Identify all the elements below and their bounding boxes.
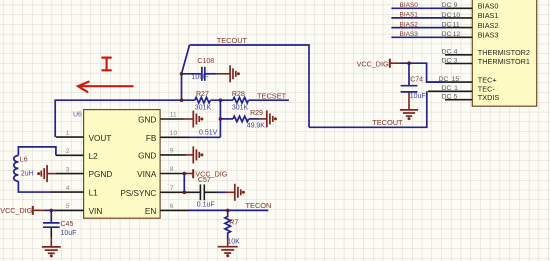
svg-text:BIAS0: BIAS0 xyxy=(478,2,499,11)
svg-text:TEC+: TEC+ xyxy=(478,75,497,84)
svg-text:THERMISTOR2: THERMISTOR2 xyxy=(478,48,530,57)
wire FB vertical xyxy=(219,100,221,137)
wire pin8 to pin7 xyxy=(183,174,185,193)
wire C57 lead xyxy=(204,191,217,193)
wire BIAS0 xyxy=(391,7,446,9)
wire BIAS1 xyxy=(391,17,446,19)
wire FB row xyxy=(189,136,221,138)
svg-text:BIAS2: BIAS2 xyxy=(478,21,499,30)
wire TECSET xyxy=(249,99,289,101)
svg-text:TECOUT: TECOUT xyxy=(217,36,248,45)
svg-text:10UF: 10UF xyxy=(192,74,209,81)
pin DC 11 xyxy=(445,27,472,29)
svg-text:2uH: 2uH xyxy=(21,171,34,178)
svg-text:8: 8 xyxy=(170,166,174,173)
svg-text:EN: EN xyxy=(145,207,156,216)
svg-text:C57: C57 xyxy=(198,177,211,184)
svg-text:5: 5 xyxy=(454,94,458,101)
power port VCC_DIG (VINA pin 8) xyxy=(184,173,193,175)
junction FB tap xyxy=(219,98,223,102)
ground right of C108 xyxy=(215,73,230,75)
svg-text:2: 2 xyxy=(66,148,70,155)
svg-text:1: 1 xyxy=(66,130,70,137)
U6 pin 3 xyxy=(56,173,84,175)
svg-text:VIN: VIN xyxy=(89,207,103,216)
svg-text:BIAS1: BIAS1 xyxy=(478,11,499,20)
svg-text:PS/SYNC: PS/SYNC xyxy=(120,189,156,198)
wire VIN xyxy=(45,209,57,211)
pin DC 1 xyxy=(428,90,472,92)
svg-text:6: 6 xyxy=(170,203,174,210)
svg-text:10uF: 10uF xyxy=(410,93,426,100)
U6 pin 5 xyxy=(54,209,84,211)
svg-text:301K: 301K xyxy=(195,104,212,111)
svg-text:R29: R29 xyxy=(250,110,263,117)
resistor R27 xyxy=(195,97,211,103)
ground at pin 11 xyxy=(184,118,193,120)
pin DC 9 xyxy=(445,7,472,9)
ground below R7 xyxy=(227,239,229,247)
junction R29 branch xyxy=(219,117,223,121)
svg-text:1: 1 xyxy=(454,85,458,92)
svg-text:C45: C45 xyxy=(61,221,74,228)
svg-text:L1: L1 xyxy=(89,189,99,198)
current direction marker I xyxy=(102,58,111,71)
svg-text:0.1uF: 0.1uF xyxy=(197,202,215,209)
svg-text:C108: C108 xyxy=(197,58,214,65)
svg-text:4: 4 xyxy=(454,49,458,56)
svg-text:C74: C74 xyxy=(410,77,423,84)
U6 pin 11 xyxy=(160,118,184,120)
ground below C45 xyxy=(50,228,52,238)
svg-text:DC: DC xyxy=(442,57,452,64)
svg-text:DC: DC xyxy=(442,85,452,92)
pin DC 10 xyxy=(445,17,472,19)
resistor R7 xyxy=(225,210,231,239)
junction R7 xyxy=(226,209,230,213)
svg-text:VOUT: VOUT xyxy=(89,134,112,143)
U6 pin 2 xyxy=(56,154,84,156)
U6 pin 10 xyxy=(160,136,189,138)
wire TECOUT top run xyxy=(190,45,310,127)
U6 pin 7 xyxy=(160,191,200,193)
svg-text:9: 9 xyxy=(454,2,458,9)
pin DC 5 xyxy=(445,99,472,101)
svg-text:BIAS3: BIAS3 xyxy=(478,31,499,40)
capacitor C108 xyxy=(201,67,203,81)
wire R29 to ground xyxy=(249,118,259,120)
wire TECOUT to TEC- xyxy=(309,91,427,127)
svg-text:GND: GND xyxy=(138,152,156,161)
svg-text:10: 10 xyxy=(453,12,461,19)
svg-text:5: 5 xyxy=(66,203,70,210)
wire C108 left lead xyxy=(182,73,202,75)
wire VOUT rail xyxy=(55,100,195,137)
capacitor C57 xyxy=(199,184,201,200)
svg-text:15: 15 xyxy=(452,76,460,83)
wire BIAS3 xyxy=(391,36,446,38)
wire to R29 xyxy=(220,118,233,120)
pin DC 3 xyxy=(445,63,472,65)
U6 pin 6 xyxy=(160,209,189,211)
junction at C74 tap xyxy=(407,61,411,65)
svg-text:VINA: VINA xyxy=(137,170,157,179)
U6 pin 9 xyxy=(160,154,186,156)
svg-text:THERMISTOR1: THERMISTOR1 xyxy=(478,57,530,66)
ground below C74 xyxy=(408,93,410,110)
svg-text:3: 3 xyxy=(454,57,458,64)
inductor L6 xyxy=(18,147,56,156)
wire C108 right lead xyxy=(205,73,216,75)
wire BIAS2 xyxy=(391,27,446,29)
connector DC body xyxy=(472,0,536,106)
wire R27-R28 xyxy=(211,99,233,101)
svg-text:3: 3 xyxy=(66,166,70,173)
svg-text:R27: R27 xyxy=(196,91,209,98)
svg-text:R28: R28 xyxy=(232,91,245,98)
pin DC 4 xyxy=(445,54,472,56)
svg-text:9: 9 xyxy=(170,148,174,155)
capacitor C74 xyxy=(401,85,418,87)
svg-text:GND: GND xyxy=(138,116,156,125)
wire TECON xyxy=(189,209,269,211)
svg-text:11: 11 xyxy=(170,112,177,119)
svg-text:10uF: 10uF xyxy=(61,230,77,237)
svg-text:TECOUT: TECOUT xyxy=(372,118,403,127)
IC U6 body xyxy=(84,110,161,219)
wire diagonal to C108 node xyxy=(182,45,190,100)
svg-text:10: 10 xyxy=(170,130,178,137)
ground right of R29 xyxy=(259,118,267,120)
resistor R29 xyxy=(233,116,249,122)
svg-text:TECON: TECON xyxy=(246,201,272,210)
pin DC 12 xyxy=(445,36,472,38)
junction C45 xyxy=(50,209,54,213)
svg-text:VCC_DIG: VCC_DIG xyxy=(0,206,32,215)
svg-text:TECSET: TECSET xyxy=(257,91,287,100)
svg-text:DC: DC xyxy=(442,49,452,56)
U6 pin 1 xyxy=(56,136,84,138)
svg-text:DC: DC xyxy=(442,94,452,101)
resistor R28 xyxy=(233,97,249,103)
svg-text:49.9K: 49.9K xyxy=(247,122,266,129)
ground right of C57 xyxy=(226,191,234,193)
svg-text:L2: L2 xyxy=(89,152,99,161)
svg-text:VCC_DIG: VCC_DIG xyxy=(357,59,389,68)
wire C74 top lead xyxy=(408,63,410,85)
wire C45 top lead xyxy=(50,210,52,222)
svg-text:12: 12 xyxy=(453,31,461,38)
svg-text:PGND: PGND xyxy=(89,170,113,179)
junction rail / C108 branch xyxy=(180,98,184,102)
wire VCC_DIG to TEC+ xyxy=(401,63,447,82)
svg-text:4: 4 xyxy=(66,185,70,192)
ground at PGND pin 3 xyxy=(37,172,40,175)
capacitor C45 xyxy=(43,222,60,224)
svg-text:7: 7 xyxy=(170,185,174,192)
svg-text:FB: FB xyxy=(146,134,157,143)
U6 pin 4 xyxy=(51,191,84,193)
svg-text:U6: U6 xyxy=(73,112,82,119)
svg-text:10K: 10K xyxy=(227,238,240,245)
pin DC 15 xyxy=(428,81,472,83)
svg-text:L6: L6 xyxy=(20,157,28,164)
junction pin 7 xyxy=(183,191,187,195)
U6 pin 8 xyxy=(160,173,184,175)
svg-text:R7: R7 xyxy=(229,220,238,227)
svg-text:TXDIS: TXDIS xyxy=(478,93,500,102)
ground at pin 9 xyxy=(186,154,193,156)
junction pin 8 xyxy=(183,172,187,176)
current direction arrow xyxy=(78,82,133,92)
junction at C108 xyxy=(180,72,184,76)
svg-text:301K: 301K xyxy=(232,104,249,111)
svg-text:0.51V: 0.51V xyxy=(199,130,218,137)
svg-text:11: 11 xyxy=(453,22,460,29)
